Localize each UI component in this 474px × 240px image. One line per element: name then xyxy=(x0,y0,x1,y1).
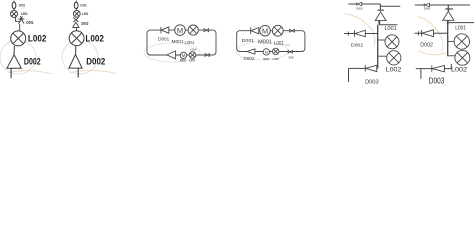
svg-text:D003: D003 xyxy=(289,55,294,59)
svg-text:D002: D002 xyxy=(86,56,105,66)
svg-text:L001: L001 xyxy=(21,11,29,16)
svg-text:L002: L002 xyxy=(386,67,402,74)
svg-text:D003: D003 xyxy=(81,21,88,26)
svg-text:M002: M002 xyxy=(180,59,186,63)
svg-text:M: M xyxy=(262,26,268,35)
svg-text:L001: L001 xyxy=(274,41,284,47)
svg-text:M001: M001 xyxy=(258,39,272,45)
svg-text:L003: L003 xyxy=(189,59,195,63)
svg-text:L004: L004 xyxy=(285,43,290,47)
svg-text:L001: L001 xyxy=(185,40,195,45)
svg-text:D002: D002 xyxy=(351,42,364,48)
svg-text:D002: D002 xyxy=(24,56,41,66)
svg-text:L002: L002 xyxy=(451,66,467,73)
svg-text:L004: L004 xyxy=(190,48,197,52)
svg-text:L001: L001 xyxy=(385,26,397,32)
svg-text:D001: D001 xyxy=(158,37,170,42)
svg-text:D002: D002 xyxy=(244,56,256,61)
svg-text:C001: C001 xyxy=(80,2,87,7)
svg-text:C001: C001 xyxy=(19,2,26,7)
svg-text:D001: D001 xyxy=(242,38,255,44)
svg-text:D002: D002 xyxy=(420,43,433,49)
svg-text:M: M xyxy=(182,53,186,58)
svg-text:M: M xyxy=(265,49,268,54)
svg-text:D001: D001 xyxy=(424,7,431,11)
svg-text:L001: L001 xyxy=(82,11,89,16)
svg-text:D001: D001 xyxy=(26,20,34,25)
svg-text:L002: L002 xyxy=(85,33,104,43)
svg-text:D003: D003 xyxy=(365,80,379,85)
svg-text:M: M xyxy=(177,26,183,35)
svg-text:L002: L002 xyxy=(28,33,47,43)
svg-text:M001: M001 xyxy=(172,39,185,44)
svg-text:L003: L003 xyxy=(273,57,279,61)
svg-text:M002: M002 xyxy=(263,57,269,61)
svg-text:L001: L001 xyxy=(455,25,466,31)
svg-text:D001: D001 xyxy=(357,7,364,11)
svg-text:D003: D003 xyxy=(429,77,445,85)
